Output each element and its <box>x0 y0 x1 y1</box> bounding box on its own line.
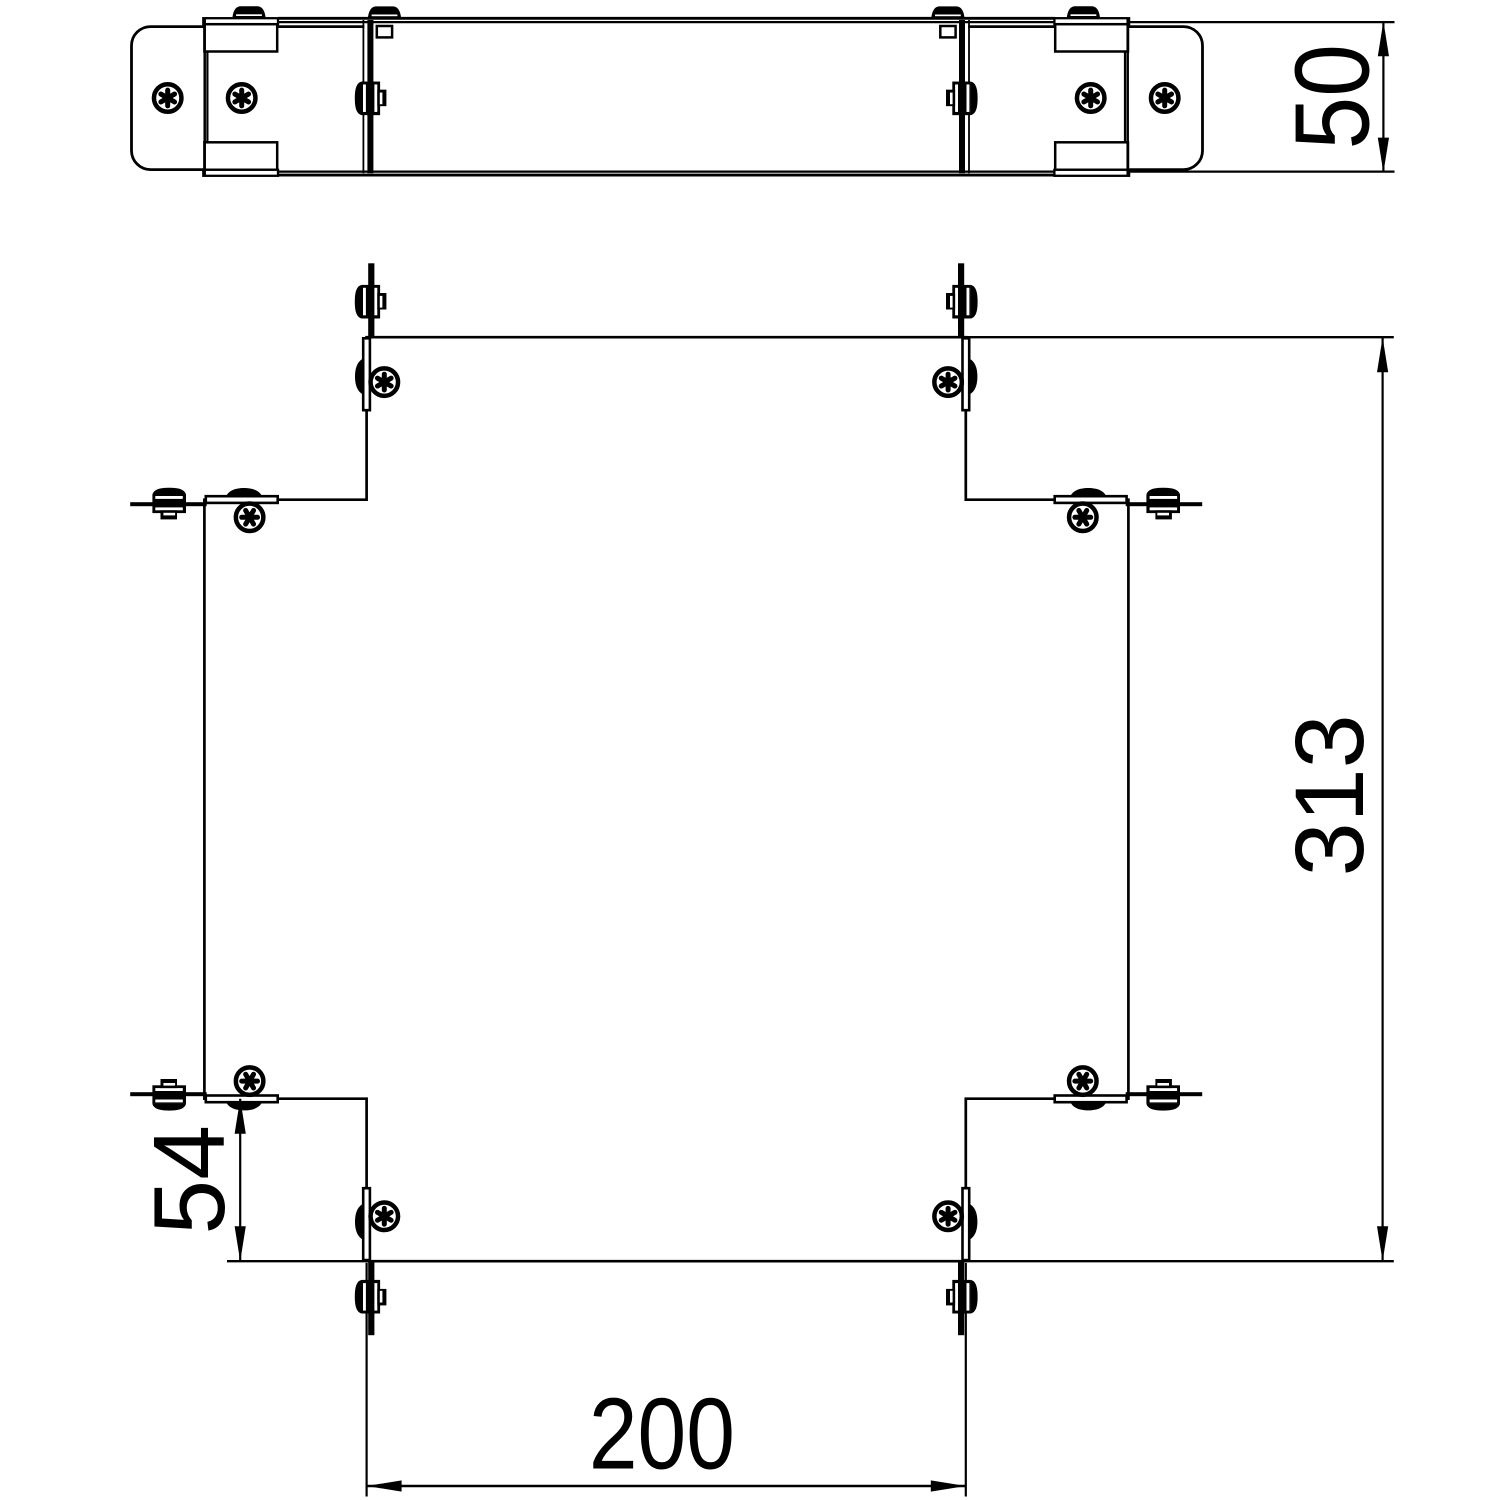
latch cluster bottom arm right <box>934 1188 977 1313</box>
dimension 54 text <box>132 1125 246 1235</box>
elevation rail bottom outer line <box>278 174 1055 177</box>
latch cluster right arm bottom <box>1055 1067 1180 1110</box>
left coupler joint bar <box>367 20 373 173</box>
dimension 54 arrow up <box>235 1099 246 1134</box>
right clamp bracket <box>1054 6 1129 176</box>
left clamp bracket <box>203 6 278 176</box>
dimension 50 text <box>1274 44 1392 150</box>
elevation crossing cover plate <box>364 18 968 175</box>
dimension 313 arrow down <box>1377 1226 1388 1261</box>
svg-text:313: 313 <box>1275 714 1384 876</box>
extension line bottom 313 <box>966 1260 1394 1262</box>
latch strap bottom arm left <box>368 1260 374 1335</box>
latch cluster left arm bottom <box>152 1067 277 1110</box>
dimension 54 arrow down <box>235 1226 246 1261</box>
extension line bottom 54 <box>227 1260 367 1262</box>
latch strap left arm bottom <box>130 1092 207 1096</box>
dimension 50 arrow up <box>1378 21 1389 56</box>
dimension 50 line <box>1382 22 1384 172</box>
svg-text:200: 200 <box>589 1377 735 1491</box>
svg-text:54: 54 <box>132 1125 246 1235</box>
latch cluster top arm right <box>934 285 977 410</box>
right coupler side screw <box>946 82 978 116</box>
right coupler joint bar <box>959 20 965 173</box>
latch cluster top arm left <box>355 285 398 410</box>
right coupler top screw dome <box>931 6 964 18</box>
left coupler joint line <box>362 20 364 173</box>
right coupler joint line <box>968 20 970 173</box>
elevation torx screw far right <box>1151 84 1179 112</box>
elevation torx screw left bracket <box>228 84 256 112</box>
dimension 50 arrow down <box>1378 138 1389 173</box>
latch strap left arm top <box>130 502 207 506</box>
extension line top 313 <box>966 336 1394 338</box>
dimension 54 line <box>239 1099 241 1262</box>
left coupler top screw dome <box>368 6 401 18</box>
extension line 200 left <box>366 1263 368 1497</box>
elevation side cover profile <box>132 27 1203 170</box>
dimension 200 arrow left <box>367 1480 402 1491</box>
latch strap top arm left <box>368 263 374 338</box>
latch cluster left arm top <box>152 488 277 531</box>
elevation torx screw far left <box>154 84 182 112</box>
latch strap right arm bottom <box>1126 1092 1203 1096</box>
latch cluster bottom arm left <box>355 1188 398 1313</box>
plan cover outline <box>204 337 1128 1261</box>
dimension 200 line <box>367 1485 966 1487</box>
latch cluster right arm top <box>1055 488 1180 531</box>
elevation rail top outer line <box>278 17 1055 20</box>
left coupler top tab <box>377 26 392 37</box>
svg-text:50: 50 <box>1274 44 1392 150</box>
left coupler side screw <box>355 82 387 116</box>
dimension 313 text <box>1275 714 1384 876</box>
right coupler top tab <box>940 26 955 37</box>
dimension 200 arrow right <box>931 1480 966 1491</box>
dimension 313 line <box>1381 337 1383 1261</box>
elevation torx screw right bracket <box>1077 84 1105 112</box>
latch strap bottom arm right <box>958 1260 964 1335</box>
elevation rail bottom inner line <box>278 171 1395 173</box>
elevation hidden-edge mask <box>204 168 1130 171</box>
latch strap right arm top <box>1126 502 1203 506</box>
dimension 313 arrow up <box>1377 337 1388 372</box>
latch strap top arm right <box>958 263 964 338</box>
extension line 200 right <box>965 1263 967 1497</box>
elevation rail top inner line <box>278 21 1395 23</box>
